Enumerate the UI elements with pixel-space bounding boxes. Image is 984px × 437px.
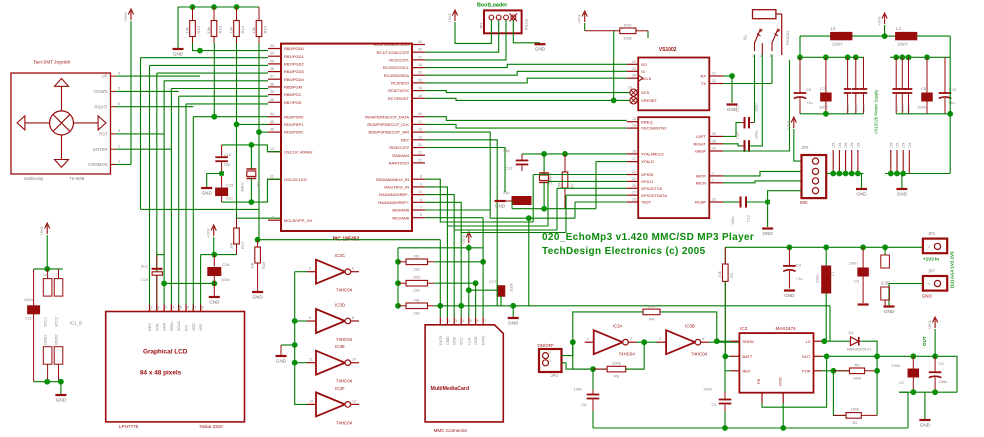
pin OUT [814, 355, 823, 357]
junction bias row [830, 171, 836, 177]
svg-text:GND: GND [922, 294, 932, 299]
wire out bottom l [899, 391, 908, 393]
LCD pin LED [200, 305, 202, 312]
svg-text:+3V3: +3V3 [447, 13, 452, 23]
ground inverter inputs [280, 345, 282, 356]
svg-text:1: 1 [151, 306, 153, 310]
svg-text:11: 11 [309, 358, 313, 362]
wire battery rail [725, 246, 923, 248]
ground battery [884, 305, 895, 307]
svg-text:31: 31 [712, 72, 716, 76]
wire GPIO0 col [532, 175, 534, 223]
capacitor C1 [724, 392, 726, 400]
svg-text:GND2: GND2 [55, 334, 59, 345]
pin 6 RA3/AN3/VREF+ [412, 201, 425, 203]
capacitor C2 [912, 356, 914, 369]
svg-text:TS-6MB: TS-6MB [69, 176, 85, 181]
junction battery rail [787, 244, 793, 250]
wire bottom gnd rail [593, 427, 908, 429]
pin 25 TEST [627, 201, 639, 203]
svg-text:22uH: 22uH [816, 274, 820, 283]
svg-text:RA5/AN4: RA5/AN4 [392, 153, 409, 158]
+3V3 supply at mic [791, 117, 796, 128]
node inv D [292, 318, 298, 324]
svg-text:RD6/PSP6/ECCP_WR: RD6/PSP6/ECCP_WR [369, 130, 410, 135]
LCD pin RES [149, 305, 151, 312]
svg-text:100k: 100k [612, 361, 621, 366]
pin 36 RB3/PGD3 [268, 71, 281, 73]
svg-text:C6: C6 [581, 402, 587, 407]
wire R4 right [661, 312, 717, 341]
capacitor C20 [744, 140, 746, 152]
svg-text:GPIO1: GPIO1 [641, 179, 654, 184]
svg-text:JP3: JP3 [551, 373, 559, 378]
svg-text:6: 6 [352, 267, 354, 271]
svg-text:15k: 15k [832, 142, 836, 148]
wire GPIO1 net [548, 180, 627, 182]
wire long route right [829, 306, 831, 341]
resistor R7 [564, 154, 566, 172]
wire right bias row [885, 173, 950, 175]
svg-text:23: 23 [418, 78, 422, 82]
wire R6 right [626, 342, 645, 369]
svg-text:RX: RX [700, 74, 706, 79]
svg-text:JP1: JP1 [928, 231, 936, 236]
wire POK net [822, 370, 850, 372]
svg-text:74HC04: 74HC04 [336, 420, 353, 425]
svg-text:RA2/AN2/VREF-: RA2/AN2/VREF- [379, 192, 409, 197]
inverter IC3B [666, 330, 695, 354]
svg-text:21: 21 [632, 170, 636, 174]
node right bottom [947, 111, 953, 117]
wire R15 col [258, 43, 260, 240]
junction left rail [845, 54, 851, 60]
LCD pin GND [163, 305, 165, 312]
svg-text:1: 1 [752, 54, 754, 58]
svg-text:C15: C15 [226, 183, 234, 188]
svg-text:LED: LED [199, 323, 203, 331]
svg-text:+1u: +1u [796, 276, 803, 281]
wire mmc 3v3 row [398, 247, 483, 249]
svg-text:C19: C19 [141, 277, 149, 282]
svg-text:RA4/T0CKI: RA4/T0CKI [389, 161, 409, 166]
pin 34 RB1/PGD1 [268, 55, 281, 57]
jack contact ring [772, 30, 778, 51]
svg-text:GND: GND [884, 309, 895, 314]
wire IC3B out [709, 341, 739, 343]
svg-text:100n: 100n [819, 105, 828, 110]
pin 33 RB0/PGD0 [268, 48, 281, 50]
jack contact tip [755, 30, 761, 51]
pin 16 RC6/TX/CK [412, 90, 425, 92]
wire rail join [907, 392, 909, 428]
wire MMC col5 [468, 248, 470, 317]
svg-text:2k2: 2k2 [414, 288, 421, 293]
svg-text:MICP: MICP [696, 174, 706, 179]
svg-text:R9: R9 [414, 253, 420, 258]
joystick pin RIGHT [111, 106, 117, 108]
svg-text:RD5/PSP5/ECCP_CLK: RD5/PSP5/ECCP_CLK [367, 122, 409, 127]
svg-text:R10: R10 [196, 25, 201, 33]
svg-text:GND: GND [920, 423, 931, 428]
wire SI net [425, 71, 627, 75]
svg-text:4: 4 [172, 306, 174, 310]
svg-text:RA0/AN0/MUX_IN: RA0/AN0/MUX_IN [376, 177, 409, 182]
wire R19 down [613, 31, 615, 101]
svg-text:26: 26 [632, 184, 636, 188]
svg-text:GND: GND [897, 192, 908, 197]
wire RD0 riser [192, 117, 194, 312]
svg-text:JP7: JP7 [928, 269, 936, 274]
svg-text:10k: 10k [251, 27, 256, 33]
svg-text:TX: TX [701, 81, 706, 86]
svg-text:DAT3: DAT3 [439, 336, 443, 345]
capacitor C12 [740, 196, 742, 207]
svg-text:C4: C4 [796, 263, 802, 268]
svg-text:10k: 10k [717, 271, 722, 277]
wire bootloader pin3 [425, 20, 506, 60]
svg-text:100k: 100k [624, 35, 633, 40]
node R20 right [473, 280, 479, 286]
node R20 left [395, 280, 401, 286]
svg-text:RD4/PSP4/ECCP_DATA: RD4/PSP4/ECCP_DATA [365, 114, 409, 119]
svg-text:GND: GND [209, 300, 220, 305]
svg-text:C11: C11 [25, 316, 33, 321]
svg-text:5: 5 [309, 267, 311, 271]
svg-text:Q2: Q2 [257, 182, 261, 187]
svg-text:L3: L3 [831, 26, 836, 31]
junction right rail [899, 54, 905, 60]
svg-text:16: 16 [418, 86, 422, 90]
svg-text:Graphical LCD: Graphical LCD [143, 349, 188, 356]
svg-text:GND: GND [508, 321, 519, 326]
svg-text:1: 1 [587, 337, 589, 341]
svg-text:VS1002: VS1002 [659, 47, 677, 53]
svg-text:19: 19 [418, 112, 422, 116]
inverter IC3C [316, 260, 345, 284]
wire bus [178, 6, 259, 8]
svg-text:2: 2 [272, 216, 274, 220]
junction right bias [888, 171, 894, 177]
svg-text:2: 2 [118, 144, 120, 148]
wire R19 right [647, 31, 649, 38]
junction right bias [894, 171, 900, 177]
wire bootloader pin1 [455, 20, 491, 43]
wire inverter bus v [295, 272, 307, 405]
wire net ENTER [127, 148, 171, 150]
node R8 left [395, 303, 401, 309]
svg-text:2: 2 [630, 337, 632, 341]
ground output [919, 419, 930, 421]
svg-text:+3V3: +3V3 [577, 14, 582, 24]
svg-text:RD3/CCP2: RD3/CCP2 [389, 145, 410, 150]
node route/C17 [510, 303, 516, 309]
svg-text:GPIO0: GPIO0 [641, 172, 654, 177]
svg-text:2MHz: 2MHz [241, 182, 245, 192]
power pins VCC1 VCC2 IC1_B [43, 279, 52, 297]
svg-text:0u1: 0u1 [141, 264, 148, 269]
ground crystal caps [201, 187, 212, 189]
svg-text:RE0/AN5: RE0/AN5 [392, 208, 409, 213]
svg-text:Tact-SMT Joystick: Tact-SMT Joystick [33, 60, 71, 65]
capacitor C5 [799, 57, 801, 93]
svg-text:RB4/PGD4: RB4/PGD4 [284, 77, 305, 82]
pin 21 RA4/T0CKI [412, 162, 425, 164]
junction battery rail [823, 244, 829, 250]
svg-text:C17: C17 [489, 279, 497, 284]
svg-text:R15: R15 [263, 25, 268, 33]
resistor R14 [236, 7, 238, 21]
resistor R17 [234, 228, 240, 244]
wire RD2 row [259, 131, 268, 133]
svg-text:LX: LX [806, 339, 811, 344]
svg-text:37: 37 [270, 75, 274, 79]
svg-text:33: 33 [712, 198, 716, 202]
capacitor C9 body [858, 268, 869, 276]
svg-text:33p: 33p [503, 190, 510, 195]
resistor R6 [593, 368, 607, 370]
capacitor C16 [221, 145, 223, 157]
wire mic pin4 [768, 191, 802, 202]
resistor R2 [833, 414, 846, 416]
wire OUT to right [877, 355, 935, 357]
svg-text:4: 4 [702, 337, 704, 341]
svg-text:MCLR/VPP_HV: MCLR/VPP_HV [284, 218, 313, 223]
wire R9 net [434, 261, 483, 263]
svg-text:17: 17 [418, 120, 422, 124]
svg-text:D/C: D/C [185, 324, 189, 331]
svg-text:74HC04: 74HC04 [336, 379, 353, 384]
svg-text:XTALO: XTALO [641, 159, 654, 164]
svg-text:100n: 100n [917, 105, 926, 110]
svg-text:RD7: RD7 [401, 137, 410, 142]
svg-text:1: 1 [712, 171, 714, 175]
svg-text:20: 20 [418, 143, 422, 147]
pin 1 MICP [709, 175, 723, 177]
MMC pin 5 [468, 317, 470, 325]
pin 12 OSC2 [268, 178, 281, 180]
svg-text:Multicomp: Multicomp [24, 176, 44, 181]
svg-text:15k: 15k [838, 142, 842, 148]
ground under R16 [252, 291, 263, 293]
wire inv in D [295, 320, 307, 322]
svg-text:RB3/PGD3: RB3/PGD3 [284, 69, 305, 74]
svg-text:33p: 33p [503, 148, 510, 153]
svg-text:SO: SO [641, 62, 647, 67]
svg-text:GND: GND [762, 231, 773, 236]
svg-text:L2: L2 [896, 26, 901, 31]
svg-text:74HC04: 74HC04 [691, 352, 708, 357]
node RX gnd [729, 73, 735, 79]
pin 37 RB4/PGD4 [268, 78, 281, 80]
pin 9 RA1/TRIG_IN [412, 186, 425, 188]
svg-text:10uH: 10uH [832, 42, 843, 47]
svg-text:+3V3: +3V3 [206, 228, 211, 238]
capacitor C4 [788, 247, 790, 266]
node r1m top [562, 151, 568, 157]
pin 15 RD6/PSP6/ECCP_WR [412, 131, 425, 133]
svg-text:10k: 10k [206, 27, 211, 33]
svg-text:R19: R19 [624, 22, 632, 27]
pin BATT [730, 355, 739, 357]
wire MMC col1 [439, 240, 441, 318]
svg-text:100n: 100n [901, 104, 905, 112]
svg-text:JP4: JP4 [801, 145, 809, 150]
wire IC1B vcc rail [34, 268, 63, 270]
MMC pin 3 [453, 317, 455, 325]
node R6 left [590, 366, 596, 372]
node R14 junction [234, 122, 240, 128]
pin 17 RD5/PSP5/ECCP_CLK [412, 123, 425, 125]
junction bias row [837, 171, 843, 177]
wire inv in E [295, 362, 307, 364]
MMC pin 6 [475, 317, 477, 325]
svg-text:R17: R17 [240, 241, 245, 249]
svg-text:+1u: +1u [948, 100, 955, 105]
svg-text:GND1: GND1 [44, 334, 48, 345]
node R9 left [395, 259, 401, 265]
wire right col down [949, 57, 951, 173]
wire JP3 pin2 [562, 363, 594, 369]
wire XTALO drop [595, 162, 597, 209]
svg-text:100n: 100n [574, 387, 583, 392]
svg-text:44: 44 [270, 112, 274, 116]
wire under-PIC row [258, 239, 441, 241]
svg-text:30: 30 [632, 67, 636, 71]
LCD pin VDD [192, 305, 194, 312]
svg-text:RB7/PGD: RB7/PGD [284, 100, 302, 105]
capacitor C7 body [821, 93, 832, 101]
svg-text:RC7/RX/DT: RC7/RX/DT [388, 96, 410, 101]
resistor R19 [585, 30, 620, 32]
wire RB1 row [141, 57, 269, 59]
wire batt feed [724, 247, 726, 264]
svg-text:74HC04: 74HC04 [336, 337, 353, 342]
wire C17 gnd stub [512, 306, 514, 317]
joystick S1 Tact-SMT [11, 73, 111, 174]
ground C4 [784, 289, 795, 291]
capacitor C11 [33, 269, 35, 306]
svg-text:GND: GND [778, 377, 783, 386]
svg-text:RD1/PSP1: RD1/PSP1 [284, 122, 304, 127]
capacitor C21 [744, 117, 746, 128]
wire RB2 riser [149, 65, 151, 311]
joystick pin ENTER [111, 148, 117, 150]
pin 37 GBUF [709, 150, 723, 152]
svg-text:XCS: XCS [641, 90, 650, 95]
wire D1 out [861, 341, 877, 356]
+3V3 supply at R19 [582, 11, 587, 22]
node R8 col4 [458, 303, 464, 309]
svg-text:16: 16 [632, 149, 636, 153]
node IC1B vcc [44, 266, 50, 272]
svg-text:15k: 15k [902, 142, 906, 148]
wire DREQ net [425, 117, 627, 121]
wire TEST col [574, 202, 576, 218]
ground under bank [173, 48, 184, 50]
svg-text:100n: 100n [221, 277, 230, 282]
resistor R20 [398, 282, 406, 284]
ceramic caps left group [847, 57, 849, 89]
svg-text:RCAP: RCAP [695, 200, 706, 205]
svg-text:10: 10 [352, 358, 356, 362]
node OUT/D1 [874, 353, 880, 359]
svg-text:+3V3: +3V3 [39, 226, 44, 236]
svg-text:1: 1 [549, 358, 551, 362]
pin 8 RA0/AN0/MUX_IN [412, 178, 425, 180]
svg-text:26: 26 [418, 48, 422, 52]
wire JP3 pin1 [562, 342, 573, 355]
node R13 junction [211, 114, 217, 120]
svg-text:JP2: JP2 [480, 22, 484, 29]
svg-text:15k: 15k [850, 142, 854, 148]
svg-text:1: 1 [928, 282, 930, 286]
IC2 MAX1674 boost converter [739, 333, 813, 393]
joystick pin COMMON [111, 164, 117, 166]
pin 14 RD7 [412, 139, 425, 141]
node BATT [722, 353, 728, 359]
wire R6 left [573, 342, 607, 369]
wire GPIO3 net [566, 194, 627, 196]
wire RB3 riser [156, 73, 158, 311]
connector X1 headphone jack [753, 10, 776, 19]
capacitor C9 [862, 247, 864, 268]
svg-text:29: 29 [632, 60, 636, 64]
svg-text:MultiMediaCard: MultiMediaCard [431, 386, 470, 392]
pin 46 RD2/PSP2 [268, 131, 281, 133]
svg-text:5: 5 [470, 319, 472, 323]
wire RE0 col [425, 209, 490, 211]
wire long route top [490, 217, 575, 219]
node C3 top [932, 353, 938, 359]
capacitor C11 rect [28, 306, 40, 314]
wire IC3A out [637, 341, 658, 343]
pin 22 RA5/AN4 [412, 154, 425, 156]
svg-text:ON/OFF: ON/OFF [537, 343, 554, 348]
wire inv gnd branch [281, 344, 295, 346]
wire R20 net [434, 282, 476, 284]
wire OUT net [822, 355, 877, 357]
svg-text:100u: 100u [755, 131, 759, 139]
svg-text:C13: C13 [505, 166, 513, 171]
junction R10 top [190, 4, 196, 10]
wire MMC col2 [446, 226, 448, 317]
wire RB3 row [157, 72, 268, 74]
node C3 bottom [932, 389, 938, 395]
wire RB5 row [171, 88, 268, 90]
node mmc c6 [466, 245, 472, 251]
svg-text:LPH7775: LPH7775 [119, 424, 139, 429]
+3V3 supply top right [882, 13, 887, 24]
svg-text:LEFT: LEFT [696, 134, 706, 139]
node C2 bottom [910, 389, 916, 395]
ground bootloader [535, 43, 546, 45]
pin 17 XTALO [627, 161, 639, 163]
svg-text:7: 7 [56, 273, 58, 277]
wire XTALI net [522, 153, 627, 155]
node C18 top [211, 252, 217, 258]
svg-text:100n: 100n [862, 104, 866, 112]
microcontroller IC1 PIC18F452 [281, 44, 412, 231]
node R9 right [480, 259, 486, 265]
node OSC2/crystal [249, 199, 255, 205]
capacitor C18 body [208, 268, 221, 276]
svg-text:11: 11 [270, 175, 274, 179]
svg-text:8: 8 [420, 175, 422, 179]
LCD pin SCLK [178, 305, 180, 312]
wire LX net [822, 340, 850, 342]
junction right rail [924, 54, 930, 60]
